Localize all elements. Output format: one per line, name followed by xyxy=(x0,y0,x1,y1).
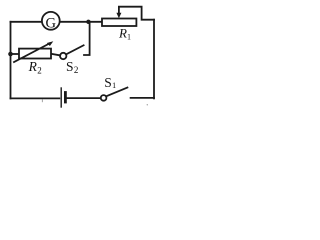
wire right vertical xyxy=(153,20,155,99)
battery BT1 short plate xyxy=(64,93,67,103)
rheostat R2 box xyxy=(19,49,51,59)
wire top-left corner to G xyxy=(11,21,43,23)
rheostat R2 diagonal arrow xyxy=(14,43,50,62)
wire node A down to S2 branch xyxy=(84,22,90,55)
resistor R1 box xyxy=(102,19,136,27)
switch S1 blade xyxy=(106,88,127,97)
scan speckle xyxy=(41,100,43,102)
svg-text:S2: S2 xyxy=(66,59,78,75)
wire left vertical xyxy=(10,22,12,99)
wire slider to right rail xyxy=(119,7,154,20)
wire battery to S1 xyxy=(67,97,101,99)
wire R2 to S2 xyxy=(51,54,60,56)
battery BT1 long plate xyxy=(60,88,62,107)
node A junction dot xyxy=(86,20,90,24)
resistor R1 slider arrow xyxy=(118,7,120,14)
wire bottom left to battery xyxy=(11,97,60,99)
scan speckle xyxy=(147,104,148,105)
switch S2 blade xyxy=(66,45,84,54)
svg-text:S1: S1 xyxy=(104,75,116,90)
node B junction dot on left rail xyxy=(8,52,13,57)
wire G to node to R1 xyxy=(60,21,102,23)
svg-text:R1: R1 xyxy=(118,26,131,42)
svg-text:G: G xyxy=(46,15,57,31)
wire S1 to bottom right corner xyxy=(131,97,154,99)
svg-text:R2: R2 xyxy=(28,59,42,75)
galvanometer U1 circle xyxy=(42,12,60,30)
wire left rail to R2 xyxy=(11,53,20,55)
switch S1 circle xyxy=(101,95,107,101)
switch S2 circle xyxy=(60,53,66,59)
